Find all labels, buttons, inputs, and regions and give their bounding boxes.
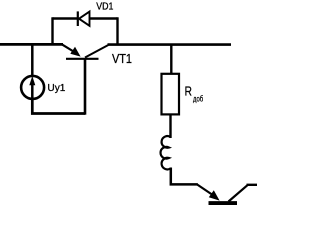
wire VT2 collector to right edge [247,184,258,186]
svg-text:доб: доб [193,94,203,104]
wire main rail left [0,43,63,46]
inductor L1 [161,136,171,169]
diode VD1 [53,11,118,26]
label Rдоб [185,84,204,104]
svg-text:VD1: VD1 [96,1,113,13]
transistor VT2 [197,184,247,203]
svg-text:Uy1: Uy1 [47,82,65,94]
transistor VT1 [62,44,108,114]
wire resistor branch top [170,45,172,74]
wire inductor to VT2 [171,168,198,185]
wire emitter to source bottom loop [32,100,85,114]
wire diode loop left vertical [51,17,53,45]
wire diode loop right vertical [116,17,118,45]
resistor Rдоб [162,74,180,115]
wire main rail right [108,43,232,46]
current source Uy1 [21,76,44,100]
svg-text:R: R [185,84,192,99]
wire current source branch top [31,44,34,77]
svg-text:VT1: VT1 [112,52,132,66]
wire resistor to inductor [169,114,171,138]
